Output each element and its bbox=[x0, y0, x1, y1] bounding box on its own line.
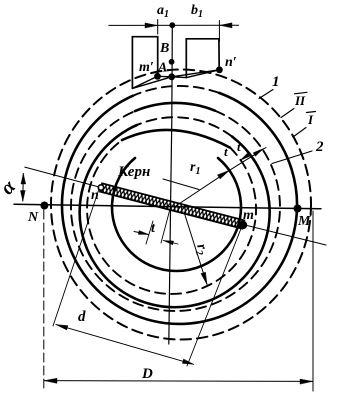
circle C3 solid top arc between cutters bbox=[135, 103, 215, 111]
wire leader for label II bbox=[281, 109, 294, 118]
wire bar axis extension right beyond m bbox=[243, 225, 326, 246]
circle C6 inner solid core circle bbox=[112, 158, 241, 271]
cutter 1 rectangle left bbox=[132, 37, 157, 89]
node N dot bbox=[40, 202, 48, 210]
wire leader for label 1 bbox=[259, 90, 273, 99]
node t chain outer arrow bbox=[253, 149, 263, 157]
svg-text:1: 1 bbox=[272, 74, 280, 90]
wire tick right cutter outer edge bbox=[218, 21, 220, 42]
node n ring at bar left end bbox=[98, 185, 103, 190]
svg-text:m: m bbox=[243, 208, 254, 223]
wire bar axis extension left (alpha line) bbox=[25, 167, 101, 187]
wire leader for Kern label bbox=[163, 179, 199, 190]
dimension D bottom line bbox=[44, 380, 312, 383]
svg-text:M: M bbox=[297, 214, 311, 229]
dimension r2 radius arrow bbox=[184, 212, 207, 285]
svg-text:B: B bbox=[159, 41, 169, 56]
wire vertical axis line bbox=[169, 28, 173, 344]
wire tick left cutter inner edge bbox=[157, 20, 159, 35]
circle C3 dashed main arc bbox=[71, 111, 280, 311]
dimension d slanted line bbox=[56, 325, 194, 365]
node n-prime dot bbox=[216, 66, 223, 73]
node t chain middle diamond arrows bbox=[240, 153, 250, 161]
dimension t center right arrow bbox=[164, 241, 179, 245]
svg-text:Керн: Керн bbox=[117, 164, 150, 180]
svg-text:N: N bbox=[27, 210, 39, 225]
wire r1 extension with t chain bbox=[230, 148, 267, 171]
wire horizontal axis line N-M bbox=[14, 204, 321, 209]
dimension alpha double arrow bbox=[22, 174, 25, 202]
cutter 2 rectangle right bbox=[186, 39, 219, 78]
svg-text:t: t bbox=[224, 144, 228, 159]
node B dot bbox=[169, 59, 175, 65]
node m dot at bar right end bbox=[239, 221, 247, 229]
wire extension from m for d dimension bbox=[187, 226, 242, 366]
circle C4 dashed top arc between cutters bbox=[137, 117, 232, 136]
wire extension line right for D bbox=[312, 211, 314, 391]
core bar hatched (Kern) bbox=[100, 183, 244, 228]
svg-text:D: D bbox=[141, 366, 153, 382]
svg-text:II: II bbox=[294, 93, 306, 108]
svg-text:n: n bbox=[91, 188, 99, 203]
node axis dot on dimension line bbox=[169, 22, 175, 28]
circle C2 dashed top arc between cutters bbox=[133, 86, 219, 96]
svg-text:n′: n′ bbox=[225, 55, 237, 70]
node M dot bbox=[294, 205, 302, 213]
svg-text:t: t bbox=[237, 139, 241, 154]
circle C4 solid main arc bbox=[80, 125, 270, 307]
wire right cutter wedge lines bbox=[172, 70, 220, 78]
wire extension from n for d dimension bbox=[53, 189, 99, 326]
circle C5 dashed main arc bbox=[87, 140, 256, 294]
node A dot bbox=[168, 73, 175, 80]
svg-text:d: d bbox=[78, 309, 86, 325]
wire overline of label I bbox=[307, 112, 316, 113]
svg-text:2: 2 bbox=[315, 139, 324, 155]
dimension t center left arrow bbox=[134, 232, 149, 235]
svg-text:I: I bbox=[307, 112, 314, 127]
svg-text:m′: m′ bbox=[139, 60, 154, 75]
circle C1 outer dashed trajectory bbox=[51, 70, 311, 340]
dimension r1 radius arrow bbox=[175, 170, 230, 206]
svg-text:A: A bbox=[157, 61, 167, 76]
node m-prime dot bbox=[154, 73, 161, 80]
circle C2 solid (through M) main arc bbox=[62, 93, 297, 324]
wire left cutter wedge lines bbox=[132, 76, 171, 88]
wire leader for label 2 bbox=[272, 151, 312, 164]
wire overline of label II bbox=[295, 92, 308, 94]
dimension t center extension lines bbox=[146, 209, 170, 244]
wire leader for label I bbox=[293, 128, 306, 138]
wire extension line from N down bbox=[43, 210, 45, 391]
circle C5 solid top arc between cutters bbox=[122, 130, 230, 148]
dimension a1 b1 top line bbox=[109, 24, 239, 26]
